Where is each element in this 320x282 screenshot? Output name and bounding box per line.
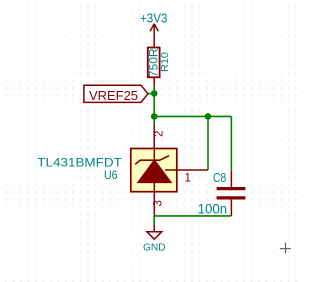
capacitor C8 bottom plate	[217, 196, 246, 199]
junction at VREF25	[151, 90, 158, 97]
wire bottom horizontal C8 to GND line	[154, 215, 231, 217]
TL431 ref line + pin 1	[165, 169, 208, 171]
TL431 pin 2 (top)	[153, 124, 155, 148]
wire junction3 down to pin1	[207, 116, 209, 169]
resistor R10 pin 2 (bottom)	[153, 77, 155, 86]
wire pin3 to GND	[153, 216, 155, 224]
junction at ref branch	[205, 113, 212, 120]
svg-text:1: 1	[184, 172, 190, 184]
wire junction2 to right corner	[154, 115, 231, 117]
TL431 triangle	[138, 160, 172, 183]
capacitor C8 pin 2	[230, 200, 232, 216]
TL431 cathode bar	[135, 156, 169, 165]
global label VREF25 outline	[84, 85, 148, 102]
svg-text:C8: C8	[213, 170, 226, 185]
TL431 pin 3 (bottom)	[153, 193, 155, 216]
wire right corner down to C8	[230, 116, 232, 170]
capacitor C8 top plate	[217, 187, 246, 190]
svg-text:U6: U6	[104, 170, 118, 182]
svg-text:100n: 100n	[198, 202, 228, 217]
svg-text:750R: 750R	[147, 48, 161, 77]
svg-text:R10: R10	[160, 52, 171, 72]
junction at cathode branch	[151, 113, 158, 120]
cursor crosshair	[280, 243, 291, 254]
svg-text:+3V3: +3V3	[140, 11, 168, 26]
svg-text:3: 3	[153, 200, 165, 206]
resistor R10 body	[148, 48, 160, 78]
ground symbol triangle	[147, 232, 162, 240]
power symbol +3V3	[150, 24, 158, 47]
op-amp U1 : TL431 body box	[131, 149, 177, 192]
ground symbol pin	[153, 224, 155, 232]
wire VREF25 label tail	[148, 93, 154, 95]
resistor R10 pin 1 (top)	[153, 46, 155, 49]
svg-text:VREF25: VREF25	[89, 88, 138, 103]
TL431 internal cathode line	[153, 149, 155, 193]
svg-text:GND: GND	[143, 242, 166, 254]
capacitor C8 pin 1	[230, 170, 232, 187]
svg-text:2: 2	[154, 131, 166, 137]
svg-text:TL431BMFDT: TL431BMFDT	[37, 157, 122, 169]
wire R10 bottom to TL431 cathode	[153, 86, 155, 124]
